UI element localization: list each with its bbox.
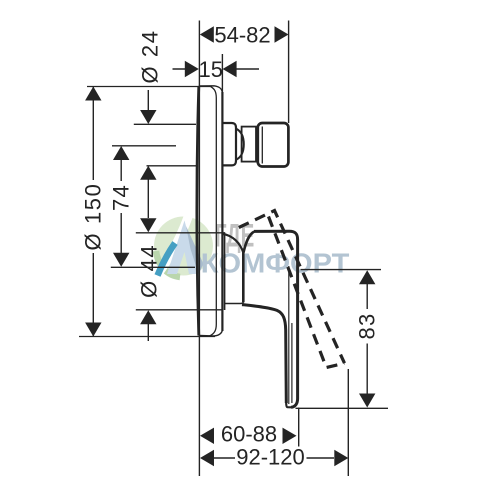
svg-text:Ø 44: Ø 44 [136, 244, 161, 298]
svg-text:83: 83 [355, 313, 380, 340]
svg-text:74: 74 [108, 184, 133, 211]
svg-text:Ø 150: Ø 150 [80, 183, 105, 251]
svg-text:92-120: 92-120 [236, 444, 305, 469]
svg-text:54-82: 54-82 [214, 22, 270, 47]
svg-text:Ø 24: Ø 24 [137, 29, 162, 83]
svg-text:15: 15 [199, 57, 223, 82]
svg-text:60-88: 60-88 [221, 422, 277, 447]
